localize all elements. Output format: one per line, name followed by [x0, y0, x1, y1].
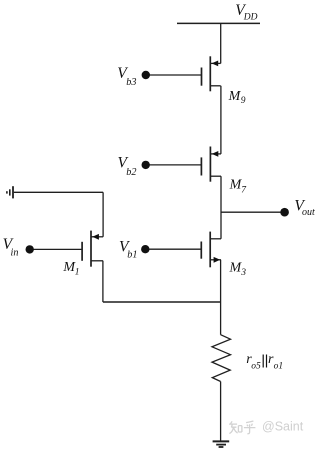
svg-text:b1: b1: [127, 250, 137, 261]
svg-text:@Saint: @Saint: [262, 420, 304, 434]
svg-text:b3: b3: [126, 77, 136, 88]
svg-text:9: 9: [241, 96, 246, 106]
svg-text:b2: b2: [126, 167, 136, 178]
svg-text:o5: o5: [251, 361, 261, 371]
svg-text:in: in: [11, 247, 19, 258]
svg-text:out: out: [302, 207, 315, 218]
svg-text:1: 1: [75, 268, 80, 278]
svg-text:DD: DD: [243, 13, 258, 23]
svg-text:o1: o1: [274, 361, 284, 371]
svg-text:3: 3: [240, 268, 246, 278]
svg-text:M: M: [228, 89, 242, 104]
